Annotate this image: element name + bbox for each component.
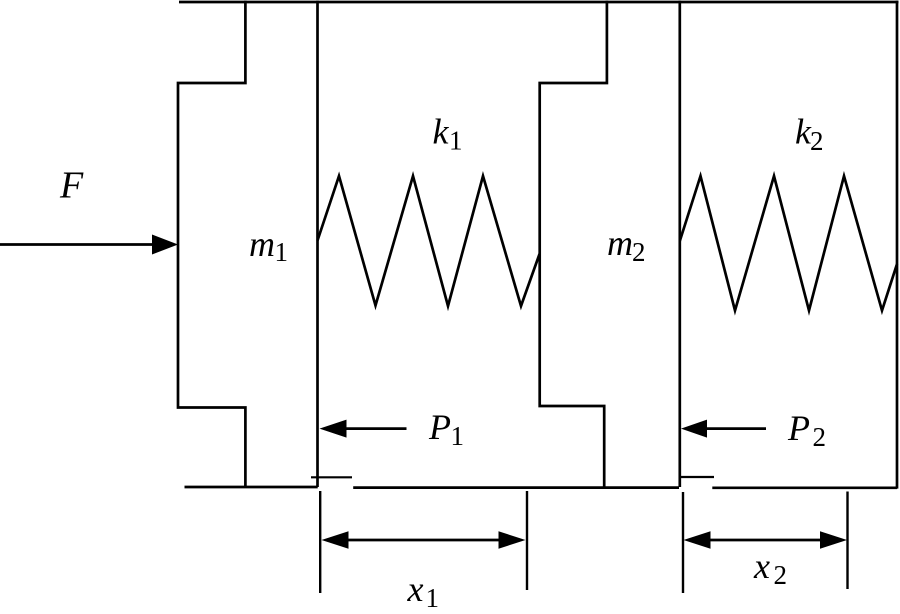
reference tick near m2 base <box>681 476 714 478</box>
force P1 arrow line <box>344 427 407 430</box>
force P2 arrowhead <box>681 420 707 438</box>
svg-text:2: 2 <box>632 237 646 267</box>
svg-text:2: 2 <box>810 126 824 156</box>
dimension arrow x1 left head <box>322 531 349 548</box>
svg-text:m: m <box>249 224 275 264</box>
force F arrowhead <box>152 235 178 255</box>
dimension tick x1 left <box>319 491 321 593</box>
ground line segment C <box>712 486 897 489</box>
svg-text:k: k <box>433 112 450 152</box>
dimension arrow x2 right head <box>820 531 847 548</box>
mass m2 right wall <box>678 1 681 487</box>
svg-text:F: F <box>59 165 84 207</box>
force P2 arrow line <box>705 427 766 430</box>
svg-text:m: m <box>607 223 633 263</box>
mass m1 stepped left outline <box>178 1 245 488</box>
dimension tick x2 right <box>846 492 848 590</box>
mass m2 stepped left outline <box>540 1 607 488</box>
svg-text:2: 2 <box>774 560 788 590</box>
dimension arrow x1 line <box>346 539 501 542</box>
svg-text:1: 1 <box>275 237 289 267</box>
dimension tick x2 left <box>682 492 684 593</box>
force P1 arrowhead <box>320 420 347 438</box>
svg-text:2: 2 <box>813 422 827 452</box>
right wall <box>896 1 899 489</box>
spring k1 <box>318 176 540 306</box>
top wall line <box>179 1 899 4</box>
mass m1 right wall <box>316 1 319 487</box>
ground line segment A <box>185 486 318 489</box>
ground line segment B <box>353 486 679 489</box>
svg-text:P: P <box>428 407 451 447</box>
svg-text:P: P <box>787 408 810 448</box>
dimension arrow x2 line <box>708 539 822 542</box>
svg-text:x: x <box>407 569 424 609</box>
spring k2 <box>680 176 897 311</box>
svg-text:1: 1 <box>426 583 440 613</box>
svg-text:x: x <box>753 546 770 586</box>
reference tick near m1 base <box>311 476 352 478</box>
dimension tick x1 right <box>526 491 528 590</box>
dimension arrow x1 right head <box>499 531 526 548</box>
force F arrow line <box>0 243 155 246</box>
svg-text:1: 1 <box>451 421 465 451</box>
dimension arrow x2 left head <box>684 531 711 548</box>
svg-text:1: 1 <box>449 126 463 156</box>
